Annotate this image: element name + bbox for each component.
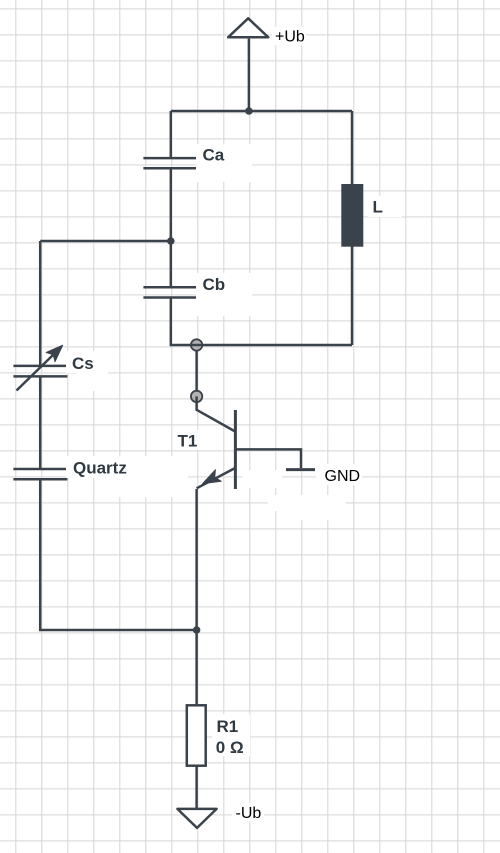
power symbol -Ub bbox=[177, 809, 216, 828]
wire right branch from top rail to inductor bbox=[351, 111, 354, 185]
label Ca bbox=[196, 144, 252, 182]
svg-text:Cs: Cs bbox=[72, 354, 94, 373]
wire node to left branch bbox=[40, 240, 171, 243]
wire node to collector terminal bbox=[195, 350, 198, 391]
label L bbox=[369, 196, 402, 217]
wire top rail bbox=[171, 110, 352, 113]
junction Ca-Cb node bbox=[167, 237, 175, 245]
svg-text:-Ub: -Ub bbox=[236, 805, 262, 822]
transistor T1 bbox=[197, 396, 236, 489]
svg-text:T1: T1 bbox=[178, 432, 198, 451]
svg-text:R1: R1 bbox=[217, 717, 239, 736]
wire Cs to Quartz bbox=[39, 376, 42, 469]
label Quartz bbox=[66, 456, 188, 497]
wire inductor to bottom rail bbox=[351, 246, 354, 345]
junction bottom node bbox=[193, 626, 201, 634]
svg-text:L: L bbox=[373, 197, 383, 216]
wire emitter down bbox=[195, 489, 198, 630]
wire Ca to node bbox=[170, 168, 173, 241]
label R1 value 0 ohm bbox=[212, 714, 250, 757]
wire R1 to -Ub bbox=[195, 766, 198, 808]
label -Ub bbox=[232, 803, 264, 822]
label GND bbox=[325, 468, 361, 485]
wire Cb to bottom rail bbox=[171, 298, 197, 346]
resistor R1 bbox=[187, 705, 206, 765]
crystal Quartz bbox=[13, 469, 67, 479]
label T1 bbox=[174, 430, 202, 451]
label Cs bbox=[66, 351, 108, 391]
node collector terminal (gray) bbox=[191, 391, 202, 402]
wire base to GND bbox=[235, 449, 301, 468]
wire left branch down to Cs bbox=[39, 241, 42, 366]
svg-text:0 Ω: 0 Ω bbox=[216, 738, 244, 757]
svg-text:Quartz: Quartz bbox=[73, 459, 127, 478]
capacitor Ca bbox=[143, 158, 197, 168]
label Cb bbox=[196, 273, 252, 316]
ground bbox=[286, 468, 315, 471]
capacitor Cs (variable) bbox=[13, 345, 67, 390]
white label backgrounds near GND bbox=[242, 464, 362, 520]
power symbol +Ub bbox=[228, 18, 268, 37]
wire bottom rail bbox=[197, 344, 352, 347]
svg-text:Cb: Cb bbox=[203, 275, 226, 294]
wire Quartz down to bottom node bbox=[40, 479, 196, 630]
svg-text:GND: GND bbox=[325, 468, 361, 485]
wire top rail to Ca bbox=[170, 111, 173, 158]
label +Ub bbox=[272, 27, 306, 46]
junction top node bbox=[245, 107, 253, 115]
wire bottom node to R1 bbox=[195, 630, 198, 705]
svg-text:+Ub: +Ub bbox=[275, 29, 305, 46]
capacitor Cb bbox=[143, 287, 197, 297]
inductor L bbox=[342, 185, 363, 247]
svg-text:Ca: Ca bbox=[203, 146, 225, 165]
node bottom rail (gray terminal) bbox=[191, 339, 202, 350]
wire +Ub stem bbox=[248, 39, 251, 111]
wire node to Cb bbox=[170, 241, 173, 287]
